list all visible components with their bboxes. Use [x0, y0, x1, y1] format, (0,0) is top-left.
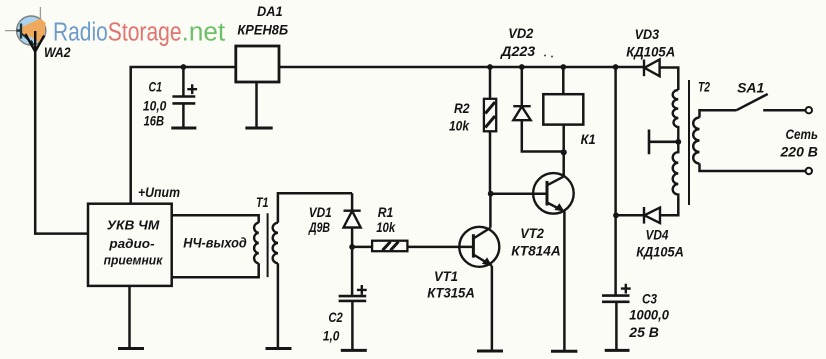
svg-text:VD1: VD1 [309, 204, 332, 220]
svg-text:Д223: Д223 [500, 43, 535, 59]
svg-text:Storage: Storage [108, 18, 182, 46]
svg-text:VD2: VD2 [508, 25, 533, 41]
svg-text:Radio: Radio [53, 18, 108, 46]
svg-text:КРЕН8Б: КРЕН8Б [237, 21, 288, 37]
svg-text:16В: 16В [144, 112, 165, 128]
svg-text:.net: .net [182, 18, 226, 46]
svg-text:НЧ-выход: НЧ-выход [183, 235, 247, 251]
svg-text:T2: T2 [698, 79, 710, 95]
svg-text:КТ814А: КТ814А [511, 242, 561, 258]
svg-text:10,0: 10,0 [143, 98, 167, 114]
svg-text:10k: 10k [449, 118, 470, 134]
svg-text:DA1: DA1 [257, 3, 283, 19]
svg-text:R2: R2 [454, 100, 470, 116]
svg-text:C3: C3 [642, 290, 657, 306]
svg-text:WA2: WA2 [44, 44, 71, 60]
svg-text:КД105А: КД105А [626, 44, 675, 60]
svg-text:УКВ ЧМ: УКВ ЧМ [107, 218, 160, 233]
svg-text:КТ315А: КТ315А [427, 284, 475, 300]
svg-text:VT1: VT1 [434, 268, 458, 284]
svg-text:220 В: 220 В [780, 143, 818, 159]
svg-text:+Uпит: +Uпит [138, 184, 180, 200]
svg-text:C2: C2 [328, 309, 342, 325]
svg-text:радио-: радио- [108, 236, 154, 251]
svg-text:VD3: VD3 [635, 26, 660, 42]
svg-text:R1: R1 [378, 204, 394, 220]
svg-text:T1: T1 [256, 194, 269, 210]
svg-text:Сеть: Сеть [786, 126, 819, 142]
svg-text:К1: К1 [581, 131, 596, 147]
svg-text:C1: C1 [149, 78, 163, 94]
svg-text:КД105А: КД105А [636, 244, 684, 260]
svg-text:25 В: 25 В [628, 324, 659, 340]
svg-text:1000,0: 1000,0 [629, 307, 669, 323]
svg-text:VT2: VT2 [520, 225, 544, 241]
svg-text:SA1: SA1 [737, 80, 764, 96]
svg-text:приемник: приемник [104, 252, 163, 267]
svg-text:1,0: 1,0 [323, 328, 340, 344]
svg-text:VD4: VD4 [646, 227, 669, 243]
svg-text:10k: 10k [376, 219, 396, 235]
svg-text:Д9В: Д9В [308, 219, 330, 235]
